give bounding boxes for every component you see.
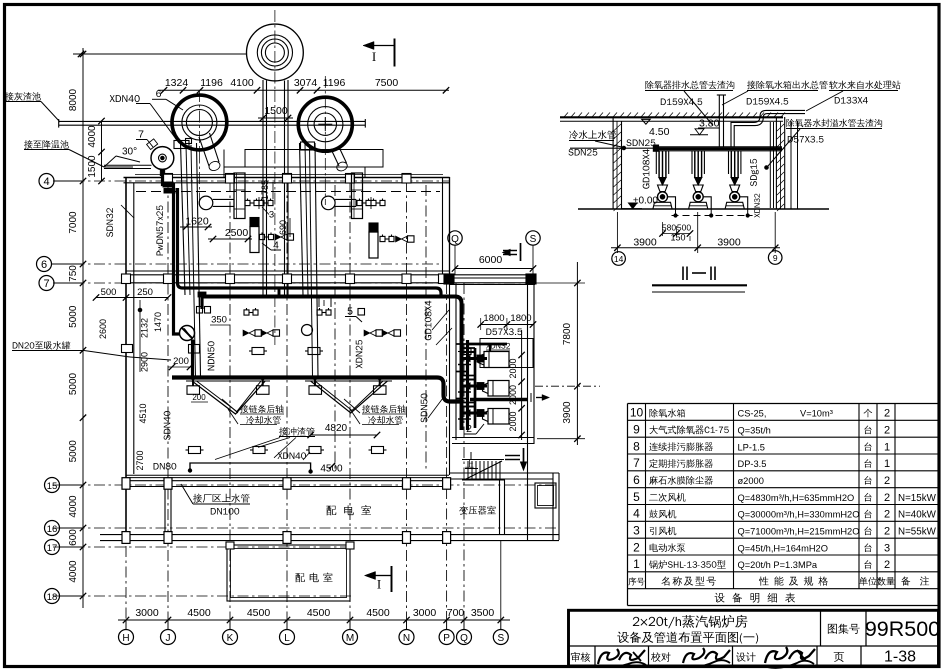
detail right wall with hatch — [775, 117, 777, 209]
svg-text:1196: 1196 — [200, 77, 223, 89]
dimension 2000x3 (rotated) — [521, 330, 523, 440]
title block frame — [569, 610, 939, 666]
right flue outlet duct (diagonal) — [331, 149, 339, 166]
boiler house right wall upper — [442, 177, 444, 283]
label XDN32 pump room — [486, 343, 510, 349]
label DN20 to suction tank — [13, 341, 71, 350]
svg-text:2500: 2500 — [225, 227, 249, 239]
label DN80 — [154, 463, 177, 470]
valve pair with 350 label — [197, 307, 203, 314]
pump room top wall — [449, 277, 535, 279]
left inner dimension line 4000/1500 — [101, 121, 103, 181]
svg-text:Q=71000m³/h,H=215mmH2O: Q=71000m³/h,H=215mmH2O — [738, 527, 860, 537]
svg-text:4000: 4000 — [68, 560, 79, 583]
detail grid circle 14 — [612, 252, 626, 266]
svg-text:N=15kW: N=15kW — [898, 493, 937, 504]
svg-text:2000: 2000 — [508, 385, 518, 405]
svg-text:200: 200 — [192, 393, 206, 402]
svg-text:3900: 3900 — [633, 237, 657, 249]
svg-text:J: J — [166, 633, 171, 644]
feedwater pipe from fan (thick) — [163, 170, 181, 334]
grid axis circle K — [223, 630, 238, 645]
flow arrow through wall — [536, 397, 547, 399]
boiler drum left — [199, 196, 213, 210]
riser stubs to pipe A — [318, 296, 320, 307]
grid axis circle 15 — [45, 478, 60, 493]
diagonal pipe marks near right wall — [432, 310, 449, 330]
grid circle Q top — [448, 231, 462, 245]
label PwDN57x25 (rotated) — [156, 205, 163, 255]
section mark I (top) — [363, 42, 374, 50]
svg-text:N=40kW: N=40kW — [898, 510, 937, 521]
expansion vessel circle — [302, 325, 313, 336]
label water-seal overflow pipe — [786, 119, 882, 127]
softened water pipe D133X4 bend — [731, 110, 805, 146]
pipe A riser stub — [278, 289, 281, 297]
svg-text:2: 2 — [884, 526, 890, 538]
label XDN25 (rotated) — [356, 340, 363, 368]
svg-text:Q: Q — [460, 633, 468, 644]
svg-text:6: 6 — [156, 88, 162, 100]
svg-text:3074: 3074 — [294, 77, 318, 89]
label D57X3.5 pump room — [486, 328, 522, 335]
svg-text:690: 690 — [278, 220, 288, 235]
svg-text:99R500: 99R500 — [865, 617, 940, 641]
svg-text:7: 7 — [138, 129, 144, 141]
grid circle S top — [526, 231, 540, 245]
valve mid 2 pair — [317, 310, 322, 315]
grid axis circle 7 — [39, 276, 54, 291]
grid axis circle 17 — [45, 540, 60, 555]
svg-text:Q=4830m³/h,H=635mmH2O: Q=4830m³/h,H=635mmH2O — [738, 493, 855, 503]
svg-text:3900: 3900 — [717, 237, 741, 249]
level symbol 4.50 — [642, 119, 650, 124]
valve low 3 — [461, 349, 471, 355]
svg-text:4500: 4500 — [187, 607, 211, 619]
top dimension line — [158, 89, 449, 91]
svg-text:1800: 1800 — [483, 313, 504, 324]
boiler column right — [352, 173, 363, 219]
svg-text:H: H — [122, 633, 129, 644]
pump group B (two pumps) — [364, 330, 370, 336]
pump manifold headers (thick) — [466, 340, 469, 430]
svg-text:5000: 5000 — [68, 372, 79, 395]
grid axis circle 18 — [45, 589, 60, 604]
wall at grid 15 — [124, 480, 450, 482]
svg-text:3: 3 — [884, 542, 890, 554]
label NDN50 (rotated) — [208, 341, 215, 370]
section symbol near stairs — [505, 455, 520, 457]
label SDN40 (rotated) — [164, 411, 171, 440]
equipment table grid — [628, 403, 939, 405]
label drain header to trench — [645, 81, 734, 90]
svg-text:8000: 8000 — [68, 88, 79, 111]
svg-text:2000: 2000 — [508, 411, 518, 431]
svg-text:4500: 4500 — [366, 607, 390, 619]
valve group row1 right — [357, 200, 362, 205]
stair label shang (up) — [465, 460, 473, 468]
label SDg15 (rotated) detail — [750, 159, 758, 186]
svg-text:580: 580 — [662, 223, 676, 233]
dimension 1500 at chimney duct — [258, 117, 293, 119]
grid axis circle P — [439, 630, 454, 645]
left flue damper box — [174, 141, 189, 149]
grid axis circle S — [493, 630, 508, 645]
funnel hopper 2 — [311, 381, 388, 413]
svg-text:1: 1 — [884, 458, 890, 470]
detail grid circle 9 — [768, 251, 782, 265]
label jie chong zha guan (flushing pipe) — [279, 427, 314, 436]
label jie hui zha chi (to ash sluice) — [5, 92, 41, 101]
label cold water supply — [569, 130, 616, 139]
svg-text:16: 16 — [47, 524, 58, 535]
label jie zhi jiang wen chi (to cooling pool) — [24, 140, 69, 149]
right flue damper box — [301, 142, 315, 150]
svg-text:500: 500 — [101, 287, 117, 298]
svg-text:2: 2 — [884, 475, 890, 487]
wall pilaster left mid — [122, 345, 133, 353]
svg-text:I: I — [372, 49, 376, 64]
svg-text:2: 2 — [884, 509, 890, 521]
leader to drain header label — [660, 90, 684, 92]
label power distribution room 2 — [295, 573, 332, 583]
svg-text:1500: 1500 — [87, 155, 98, 178]
interior wall grid 6-7 — [126, 270, 449, 272]
valve boxes on feed pipe (dark) — [163, 182, 173, 187]
left flue centerline — [198, 90, 200, 205]
svg-text:2: 2 — [884, 408, 890, 420]
svg-text:8: 8 — [633, 439, 640, 453]
svg-text:2900: 2900 — [140, 352, 150, 372]
chimney centerline — [274, 10, 276, 90]
svg-text:4100: 4100 — [230, 77, 254, 89]
title text line 2 — [617, 631, 758, 643]
staircase — [462, 459, 504, 461]
label SDN50 elbow (rotated) — [421, 393, 428, 422]
fan with X symbol — [180, 326, 195, 341]
transformer equipment box — [535, 483, 556, 508]
svg-text:Q=30000m³/h,H=330mmH2O: Q=30000m³/h,H=330mmH2O — [738, 510, 860, 520]
right flue fan (thick ring) — [298, 97, 352, 151]
deaerator tank 1 — [484, 352, 509, 368]
svg-text:S: S — [530, 234, 537, 245]
svg-text:18: 18 — [47, 592, 58, 603]
svg-text:ø2000: ø2000 — [738, 476, 764, 486]
svg-text:3000: 3000 — [413, 607, 437, 619]
blowdown vessel left — [250, 218, 259, 227]
page label — [834, 652, 844, 662]
label GD108X4 (rotated) detail — [643, 149, 650, 189]
label GD108X4 (rotated) — [425, 301, 432, 341]
grid axis circle H — [119, 630, 134, 645]
drain channel dashed — [672, 215, 753, 217]
svg-text:3: 3 — [269, 210, 274, 221]
label deaerator tank outlet header — [747, 80, 827, 89]
svg-text:700: 700 — [447, 607, 465, 619]
svg-text:7000: 7000 — [68, 211, 79, 234]
svg-text:P: P — [443, 633, 450, 644]
valve group row1 left — [245, 200, 250, 205]
svg-text:N: N — [403, 633, 410, 644]
suction manifold (thick) — [655, 146, 782, 148]
fan circle item 7 — [151, 147, 174, 170]
svg-text:Q: Q — [451, 234, 459, 245]
valve mid 1 — [244, 310, 249, 315]
boiler hall floor edge line — [126, 474, 449, 476]
svg-text:200: 200 — [173, 356, 189, 367]
svg-text:15: 15 — [47, 481, 58, 492]
svg-text:4000: 4000 — [68, 495, 79, 518]
pipe A left stub — [200, 293, 203, 309]
wall columns — [122, 274, 131, 284]
grid axis circle J — [161, 630, 176, 645]
label power distribution room 1 — [326, 505, 371, 515]
funnel hopper 1 — [192, 381, 265, 414]
detail outer right wall — [790, 121, 792, 209]
grid horizontal centerlines — [53, 180, 449, 182]
svg-text:1620: 1620 — [185, 216, 209, 228]
svg-text:4820: 4820 — [325, 423, 348, 434]
funnel risers to pipe B — [192, 378, 194, 386]
review signature — [598, 649, 619, 664]
grid axis circle N — [399, 630, 414, 645]
grid axis circle L — [280, 630, 295, 645]
svg-text:4: 4 — [633, 507, 640, 521]
boiler house left wall — [125, 177, 127, 540]
section title II-II — [682, 267, 684, 281]
svg-text:6: 6 — [633, 473, 640, 487]
svg-text:6000: 6000 — [479, 254, 503, 266]
svg-text:1: 1 — [633, 557, 640, 571]
svg-text:250: 250 — [137, 287, 153, 298]
boiler column left — [234, 173, 245, 219]
svg-text:Q=35t/h: Q=35t/h — [738, 426, 771, 436]
boiler top stepped outline — [224, 150, 383, 178]
XDN32 pipe loop in pump room (thick) — [466, 343, 507, 346]
svg-text:4.50: 4.50 — [649, 126, 670, 138]
bottom dimension line — [118, 619, 510, 621]
svg-text:M: M — [346, 633, 354, 644]
svg-text:4500: 4500 — [247, 607, 271, 619]
label chain-rear-axle cooling pipe 2 — [362, 405, 405, 414]
wall at grid 16 — [100, 534, 559, 536]
dimension 7800/3900 (rotated) — [576, 262, 578, 445]
svg-text:N=55kW: N=55kW — [898, 527, 937, 538]
dim node dot — [138, 308, 142, 312]
svg-text:750: 750 — [68, 265, 79, 282]
horizontal reference line upper-left — [73, 53, 246, 55]
label softened water from treatment — [829, 81, 901, 90]
ash sluice pipe (double line) — [59, 120, 366, 122]
svg-text:K: K — [227, 633, 234, 644]
svg-text:4500: 4500 — [307, 607, 331, 619]
main pipe B lower (thick) — [172, 378, 462, 402]
grid axis circle M — [343, 630, 358, 645]
svg-text:L: L — [284, 633, 290, 644]
svg-text:7500: 7500 — [375, 77, 399, 89]
pump room bottom wall — [452, 437, 534, 439]
svg-text:1: 1 — [884, 441, 890, 453]
grid axis circle 16 — [45, 521, 60, 536]
chimney flue duct — [262, 80, 264, 296]
pump impeller blobs (dark) — [477, 355, 484, 362]
pump room right wall — [527, 278, 529, 540]
crane rail dashed line — [136, 191, 440, 193]
svg-text:5: 5 — [347, 306, 353, 318]
funnel top valve boxes — [187, 386, 200, 395]
atlas number label — [828, 624, 860, 634]
svg-text:2: 2 — [884, 492, 890, 504]
label XDN40 lower — [277, 452, 306, 459]
svg-text:10: 10 — [630, 406, 644, 420]
svg-text:5000: 5000 — [68, 440, 79, 463]
svg-text:4000: 4000 — [87, 125, 98, 148]
svg-text:14: 14 — [614, 254, 624, 264]
svg-text:1785: 1785 — [260, 180, 270, 200]
svg-text:2000: 2000 — [508, 358, 518, 378]
svg-text:S: S — [497, 633, 504, 644]
svg-text:9: 9 — [633, 423, 640, 437]
left flue downcomer duct — [181, 143, 186, 295]
chimney (concentric circles) — [247, 24, 304, 81]
partition wall at axis J between grids 15-16 — [164, 487, 166, 535]
lower valve row — [189, 447, 201, 454]
label SDN32 (rotated) — [106, 208, 113, 237]
boiler axis centerlines — [334, 185, 336, 470]
table footer equipment list title — [715, 593, 795, 603]
grid axis circle 4 — [39, 174, 54, 189]
grid axis circle 6 — [37, 257, 52, 272]
grid vertical centerlines — [167, 181, 169, 620]
svg-text:2700: 2700 — [135, 450, 145, 470]
design label — [736, 652, 756, 661]
label factory water supply — [193, 494, 249, 503]
left vertical dimension line — [82, 48, 84, 608]
boiler house top wall — [124, 177, 450, 179]
svg-text:3900: 3900 — [562, 401, 573, 424]
svg-text:1470: 1470 — [153, 312, 163, 332]
feed pump 3 — [730, 151, 732, 178]
svg-text:1196: 1196 — [323, 77, 346, 89]
label transformer room — [459, 506, 496, 515]
svg-text:600: 600 — [68, 529, 79, 546]
right flue centerline — [324, 76, 326, 205]
svg-text:5: 5 — [633, 490, 640, 504]
svg-text:3500: 3500 — [471, 607, 495, 619]
svg-text:LP-1.5: LP-1.5 — [738, 442, 765, 452]
svg-text:Q=45t/h,H=164mH2O: Q=45t/h,H=164mH2O — [738, 543, 828, 553]
blowdown vessel right — [369, 223, 378, 232]
left flue outlet duct (diagonal) — [199, 137, 209, 166]
flushing pipe with end drops — [190, 463, 311, 471]
svg-text:3: 3 — [633, 524, 640, 538]
svg-text:17: 17 — [47, 543, 58, 554]
svg-text:CS-25,: CS-25, — [738, 409, 767, 419]
svg-text:I: I — [377, 577, 381, 592]
deaerator tank 3 — [488, 409, 509, 425]
svg-text:Q=20t/h P=1.3MPa: Q=20t/h P=1.3MPa — [738, 560, 818, 570]
label XDN32 (rotated) detail — [754, 194, 760, 218]
pump suction stubs (thick) — [462, 357, 488, 360]
check label — [651, 652, 671, 662]
feed pump 2 — [694, 151, 696, 178]
svg-text:4510: 4510 — [138, 403, 148, 423]
check signature — [683, 648, 704, 663]
fan inlet pipe (double line) — [104, 164, 152, 166]
column 14 and 9 ticks on lower walls — [226, 542, 234, 549]
detail floor line — [578, 208, 829, 210]
pump discharge pipe to section (thick) — [470, 398, 528, 401]
svg-text:30°: 30° — [122, 147, 137, 158]
svg-text:4: 4 — [43, 176, 49, 188]
svg-text:±0.00: ±0.00 — [633, 196, 658, 207]
detail ceiling slab — [560, 116, 783, 118]
svg-text:3000: 3000 — [135, 607, 159, 619]
pump group A (two pumps) — [243, 330, 249, 336]
boiler house right wall lower — [449, 283, 451, 475]
deaerator outlet riser D159X4.5 — [718, 95, 720, 147]
electrical room lower walls — [227, 545, 350, 601]
svg-text:9: 9 — [773, 253, 778, 263]
valve low 2 — [308, 348, 320, 355]
main pipe A upper (thick) — [202, 297, 462, 431]
right flue downcomer duct — [300, 143, 304, 295]
svg-text:2600: 2600 — [98, 319, 108, 339]
section title underline double — [652, 284, 747, 286]
svg-text:DP-3.5: DP-3.5 — [738, 459, 767, 469]
svg-text:7: 7 — [43, 278, 49, 290]
section mark I (bottom) — [365, 572, 376, 580]
deaerator tank 2 — [488, 381, 509, 397]
svg-text:6: 6 — [41, 259, 47, 271]
svg-text:5000: 5000 — [68, 305, 79, 328]
cold water supply line — [570, 147, 655, 149]
svg-text:500: 500 — [677, 223, 691, 233]
left flue fan (thick ring) — [172, 95, 227, 150]
svg-text:7: 7 — [633, 456, 640, 470]
svg-text:2: 2 — [466, 423, 472, 435]
detail left wall with hatch — [612, 117, 614, 209]
svg-text:2: 2 — [884, 425, 890, 437]
svg-text:1-38: 1-38 — [884, 649, 916, 666]
6000 dimension line and stems — [455, 268, 533, 270]
overflow standpipe in right wall — [769, 122, 771, 208]
svg-text:2: 2 — [884, 559, 890, 571]
svg-text:7800: 7800 — [562, 322, 573, 345]
svg-text:2: 2 — [633, 540, 640, 554]
section symbol in corridor — [503, 250, 517, 252]
valve box below fan — [189, 345, 200, 354]
boiler drum right — [322, 196, 336, 210]
label chain-rear-axle cooling pipe 1 — [240, 405, 283, 414]
label XDN40 with leader — [110, 95, 140, 102]
review label — [571, 652, 590, 662]
svg-text:350: 350 — [211, 315, 227, 326]
design signature — [765, 647, 787, 663]
svg-text:2132: 2132 — [140, 318, 150, 338]
table header row — [628, 577, 644, 585]
valve low 1 — [252, 348, 264, 355]
pump piping boundary box — [480, 339, 533, 368]
feed pump 1 — [658, 151, 660, 178]
svg-text:150: 150 — [670, 233, 685, 243]
grid axis circle Q — [457, 630, 472, 645]
svg-text:V=10m³: V=10m³ — [800, 409, 833, 419]
boiler platform edge line — [135, 174, 443, 176]
svg-text:4500: 4500 — [320, 464, 343, 475]
svg-text:1800: 1800 — [510, 313, 531, 324]
svg-text:1324: 1324 — [165, 77, 189, 89]
